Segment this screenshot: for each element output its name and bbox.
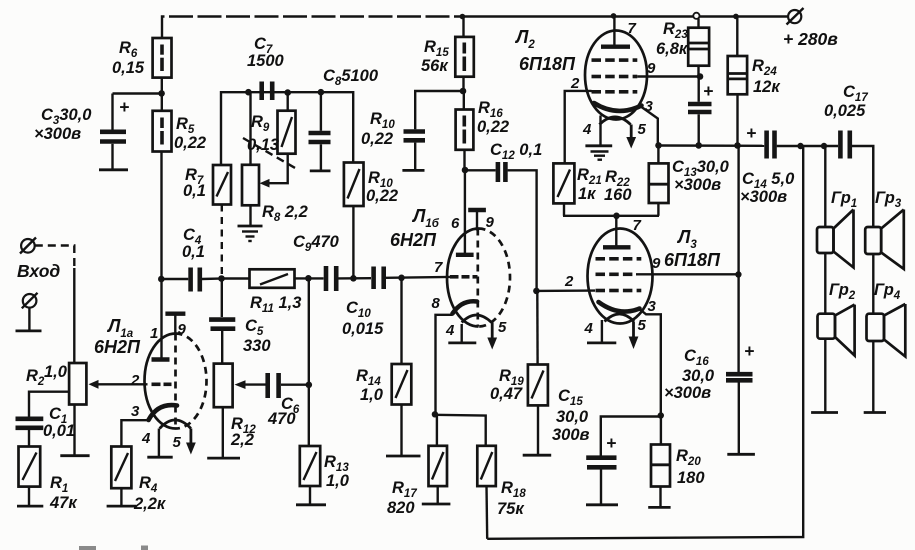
capacitor C12 0,1 (465, 141, 542, 291)
svg-text:6: 6 (451, 215, 460, 232)
terminal +280v (783, 8, 838, 49)
node top bus / R23 (open circle) (693, 13, 699, 19)
ground below R8 (238, 226, 263, 241)
capacitor (labelled R10 0,22) at R15 junction (361, 91, 463, 170)
svg-text:5: 5 (173, 434, 182, 451)
capacitor C10 0,015 (342, 267, 451, 339)
L1b grid (pin 7) (434, 259, 478, 277)
svg-text:2,2к: 2,2к (133, 495, 167, 513)
svg-text:C85100: C85100 (323, 67, 379, 88)
svg-text:×300в: ×300в (674, 176, 721, 194)
svg-text:12к: 12к (753, 78, 781, 96)
node R16 / C12 / L1b anode (462, 167, 469, 174)
resistor R9 0,13 (247, 93, 296, 188)
svg-text:6П18П: 6П18П (519, 54, 576, 74)
svg-text:+: + (119, 97, 129, 117)
wire bus node down to C6 and R13 (308, 278, 310, 446)
L2 screen lead (pin 9) (637, 60, 700, 77)
resistor R6 (112, 38, 172, 93)
node C10 / R14 / L1b grid (398, 275, 405, 282)
svg-text:4: 4 (445, 322, 455, 339)
node L3 screen / C16 line (735, 271, 741, 277)
capacitor C1 0,01 (16, 392, 76, 447)
capacitor C5 330 (209, 279, 271, 364)
svg-text:5: 5 (638, 121, 647, 138)
resistor R8 2,2 with ground (242, 92, 308, 225)
wire L3 grid lead (536, 289, 595, 292)
svg-text:0,15: 0,15 (112, 59, 145, 77)
resistor R22 160 (604, 145, 669, 216)
capacitor C16 30,0x300v electrolytic (664, 341, 755, 454)
svg-text:2: 2 (130, 372, 140, 389)
wire output node line (658, 144, 764, 147)
svg-text:0,47: 0,47 (490, 385, 523, 403)
svg-text:0,015: 0,015 (342, 320, 384, 338)
speaker Gr3 (865, 189, 904, 269)
node L2 cathode / R22 / C13 (655, 142, 662, 149)
svg-text:6П18П: 6П18П (664, 250, 721, 270)
tube L2 6P18P (pentode) (514, 27, 647, 120)
L1a anode (pin 1) (150, 325, 170, 360)
resistor R4 2,2k (107, 420, 167, 513)
capacitor C13 30,0x300v electrolytic (672, 77, 730, 195)
svg-text:0,22: 0,22 (174, 134, 206, 152)
svg-text:1к: 1к (578, 185, 597, 203)
svg-text:30,0: 30,0 (556, 408, 589, 426)
svg-text:+: + (744, 341, 754, 361)
svg-text:+: + (703, 81, 713, 101)
resistor R13 1,0 (296, 446, 350, 505)
svg-text:C330,0: C330,0 (41, 106, 92, 127)
wire top supply bus (dashed left part) (162, 17, 788, 39)
resistor R10 0,22 (344, 163, 398, 279)
svg-text:×300в: ×300в (740, 188, 787, 206)
speaker Gr4 (867, 281, 906, 357)
svg-text:300в: 300в (552, 426, 590, 444)
capacitor C6 470 (235, 373, 309, 428)
tube L3 6P18P (pentode) (588, 227, 721, 324)
resistor R15 56k (421, 17, 474, 92)
svg-text:1,0: 1,0 (326, 472, 350, 490)
svg-text:0,1: 0,1 (183, 182, 206, 200)
caption remnants bottom left (79, 546, 96, 550)
svg-text:C9470: C9470 (293, 233, 340, 254)
svg-text:7: 7 (628, 20, 637, 37)
capacitor C15 30,0 300v electrolytic (552, 387, 661, 505)
svg-text:4: 4 (584, 320, 594, 337)
capacitor C4 0,1 (161, 226, 219, 292)
svg-text:2: 2 (564, 273, 574, 290)
L1a heater pin 4 (141, 429, 173, 458)
node output / feedback (797, 143, 803, 149)
node top bus / L2 anode (611, 13, 617, 19)
wire R2 wiper to L1a grid with arrow (89, 380, 148, 389)
node R24 bottom (734, 142, 741, 149)
node R15 / R16 / cap (460, 88, 467, 95)
node anode / C4 (158, 276, 165, 283)
svg-text:0,22: 0,22 (477, 118, 509, 136)
node R11/C9/R13 (305, 275, 312, 282)
svg-text:0,13: 0,13 (247, 136, 279, 154)
node C6 junction (306, 382, 313, 389)
wire speaker column 2 (864, 146, 886, 413)
svg-text:6Н2П: 6Н2П (94, 337, 141, 357)
svg-text:4: 4 (582, 121, 592, 138)
node anode bus / L3 (613, 213, 620, 220)
L1b heater pin 5 with arrow (462, 315, 507, 350)
terminal input upper (17, 238, 74, 364)
svg-text:180: 180 (677, 469, 705, 487)
terminal input lower (grounded) (16, 293, 42, 331)
potentiometer R12 2,2 (207, 364, 256, 459)
node R23 / C13 / L2 screen (697, 73, 704, 80)
svg-text:R11 1,3: R11 1,3 (250, 294, 301, 315)
svg-text:8: 8 (432, 295, 441, 312)
svg-text:×300в: ×300в (664, 384, 711, 402)
resistor R7 0,1 (183, 165, 231, 279)
svg-text:47к: 47к (49, 494, 78, 512)
resistor R11 1,3 (horizontal) (250, 269, 302, 315)
node C9 / R10 (350, 275, 357, 282)
resistor R24 12k (728, 16, 782, 145)
svg-text:5: 5 (638, 317, 647, 334)
resistor R5 (153, 93, 207, 152)
svg-text:3: 3 (648, 298, 657, 315)
L2 anode (pin 7) (601, 16, 637, 47)
node bus / C8 (318, 89, 325, 96)
L3 grid rows (596, 259, 642, 291)
svg-text:75к: 75к (497, 500, 525, 518)
svg-text:Вход: Вход (17, 261, 60, 281)
svg-text:3: 3 (645, 98, 654, 115)
resistor R1 47k (17, 447, 78, 513)
capacitor C8 5100 (309, 67, 379, 171)
node C4 / R7 / C5 (218, 275, 225, 282)
svg-text:1,0: 1,0 (44, 363, 68, 381)
svg-text:+: + (606, 433, 616, 453)
L2 heater pin 5 with arrow (599, 117, 646, 149)
L2 cathode (pin 3) (594, 98, 658, 145)
svg-text:1,0: 1,0 (360, 386, 384, 404)
resistor R19 0,47 (490, 291, 551, 455)
svg-text:C12 0,1: C12 0,1 (490, 141, 542, 162)
svg-text:0,22: 0,22 (361, 130, 393, 148)
svg-text:0,22: 0,22 (366, 187, 398, 205)
svg-text:470: 470 (267, 410, 296, 428)
wire L1a anode line (R5 bottom to anode) (160, 152, 162, 360)
L2 heater pin 4 with ground (582, 116, 612, 160)
wire C16 branch vertical (737, 146, 739, 373)
wire node to C3 (113, 92, 162, 94)
svg-text:9: 9 (652, 255, 661, 272)
svg-text:5: 5 (498, 319, 507, 336)
L3 screen lead (pin 9) (636, 255, 738, 274)
svg-text:7: 7 (434, 259, 443, 276)
node C12 / R19 / L3 grid (533, 288, 540, 295)
L1b cathode (pin 8) (432, 295, 478, 414)
wire L1b anode lead (464, 170, 466, 255)
resistor R18 75k (435, 415, 526, 539)
resistor R16 0,22 (456, 91, 510, 170)
svg-text:7: 7 (633, 217, 642, 234)
L1a grid (pin 2) (130, 372, 172, 389)
svg-text:30,0: 30,0 (682, 367, 715, 385)
node output / speaker column 1 (821, 143, 827, 149)
speaker Gr1 (817, 189, 857, 268)
L1a cathode (pin 3) (131, 403, 177, 420)
potentiometer R2 1,0 (26, 363, 90, 456)
svg-text:6Н2П: 6Н2П (390, 230, 437, 250)
resistor R20 180 (648, 416, 705, 508)
wire R11 to C9 (295, 277, 324, 279)
svg-text:R8 2,2: R8 2,2 (262, 203, 308, 224)
tube L1b 6N2P (triode half) (390, 206, 510, 327)
capacitor C17 0,025 (824, 83, 873, 227)
svg-text:6,8к: 6,8к (656, 40, 689, 58)
svg-text:330: 330 (243, 337, 271, 355)
wire node to R11 (222, 277, 250, 279)
L1b anode (pin 6) (451, 215, 474, 255)
node top bus / R15 (460, 14, 466, 20)
svg-text:9: 9 (178, 321, 187, 338)
resistor R17 820 (387, 414, 450, 517)
node top bus / R24 (733, 14, 739, 20)
svg-text:3: 3 (131, 403, 140, 420)
L2 grid rows (592, 60, 638, 92)
capacitor C9 470 (293, 233, 371, 291)
node C13 bottom (695, 142, 702, 149)
wire anode bus R21/R22/L3 (563, 215, 659, 217)
L3 heater pin 4 (584, 320, 617, 343)
svg-text:0,025: 0,025 (824, 102, 866, 120)
capacitor C7 1500 (247, 35, 285, 100)
capacitor C14 5,0x300v (740, 123, 838, 206)
L1b shield (pin 9) (468, 210, 494, 231)
L2 control grid lead (pin 2) (565, 75, 592, 163)
node bus / R9 (284, 89, 291, 96)
svg-text:9: 9 (647, 60, 656, 77)
node bus / R8 (245, 89, 252, 96)
svg-text:820: 820 (387, 499, 415, 517)
svg-text:1500: 1500 (247, 52, 285, 70)
svg-text:2: 2 (570, 75, 580, 92)
L3 cathode (pin 3) (599, 298, 661, 415)
svg-text:+ 280в: + 280в (783, 29, 838, 49)
node R6/R5/C3 (158, 90, 165, 97)
svg-text:2,2: 2,2 (230, 431, 254, 449)
L3 anode (pin 7) (603, 216, 642, 248)
L3 heater pin 5 with arrow (605, 314, 647, 349)
L1a shield (pin 9) (165, 314, 186, 338)
wire feedback bottom line (487, 146, 803, 539)
resistor R14 1,0 (356, 278, 421, 456)
svg-text:56к: 56к (421, 57, 449, 75)
svg-text:0,01: 0,01 (43, 422, 75, 440)
resistor R21 1k (553, 163, 601, 215)
L1a heater pin 5 with arrow (160, 420, 196, 455)
wire mechanical link R8/R9 (dashed) (243, 138, 296, 169)
wire speaker column 1 (811, 146, 838, 413)
svg-text:+: + (746, 123, 756, 143)
node L1b cathode / R17 / R18 (432, 411, 438, 417)
L1b heater pin 4 (445, 322, 476, 343)
capacitor C3 30,0x300v electrolytic (34, 94, 129, 170)
speaker Gr2 (818, 281, 856, 356)
svg-text:160: 160 (604, 186, 632, 204)
svg-text:0,1: 0,1 (182, 243, 205, 261)
svg-text:9: 9 (486, 214, 495, 231)
svg-text:×300в: ×300в (34, 125, 81, 143)
svg-text:4: 4 (141, 430, 151, 447)
svg-text:1: 1 (150, 325, 158, 342)
wire C7 feedback bus (221, 92, 353, 165)
resistor R23 6,8k (656, 19, 709, 77)
node L3 cathode / R20 / C15 (658, 412, 664, 418)
tube L1a 6N2P (triode half) (94, 316, 207, 429)
